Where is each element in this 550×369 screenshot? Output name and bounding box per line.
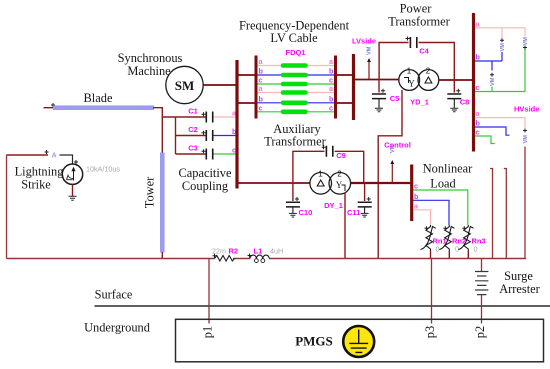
wire Rn2 bottom (448, 251, 450, 259)
capacitor C9 (326, 146, 332, 157)
ground below lightning source (69, 196, 77, 200)
svg-text:b: b (476, 119, 481, 128)
surge arrester stack (475, 272, 488, 295)
ground bus bottom (7, 258, 527, 260)
wire to C3 (176, 153, 206, 155)
load phase a wire (413, 210, 430, 225)
svg-text:b: b (476, 53, 481, 62)
wire stub bus to cable top (237, 74, 256, 76)
cable phase c1 (258, 83, 335, 85)
cable segment b2 (283, 101, 306, 106)
svg-text:10kA/10us: 10kA/10us (86, 165, 120, 174)
svg-text:Y: Y (408, 79, 415, 89)
cable left terminal bar (255, 56, 258, 119)
svg-text:LVside: LVside (352, 37, 376, 46)
ground below C5 (375, 108, 383, 112)
nonlinear resistor Rn1 (421, 225, 436, 251)
svg-text:SM: SM (175, 78, 195, 93)
wire p3 down (431, 259, 433, 324)
wire blade to tower elbow (153, 108, 162, 153)
svg-text:2: 2 (426, 67, 431, 76)
HVside phase c wire (475, 136, 495, 144)
svg-text:2: 2 (337, 170, 342, 179)
cable segment b1 (283, 73, 306, 78)
svg-text:A: A (52, 151, 57, 160)
HVside phase a wire (475, 117, 525, 119)
svg-text:Tower: Tower (143, 176, 157, 208)
wire C9 branch right riser (335, 151, 364, 183)
cable phase a2 (258, 92, 335, 94)
wire C2 to bus phase b (214, 135, 237, 137)
aux transformer DY_1 winding 1 (310, 173, 332, 195)
svg-text:b: b (414, 192, 419, 201)
svg-text:Nonlinear: Nonlinear (423, 162, 473, 176)
capacitor C4 (410, 37, 416, 48)
svg-text:C2: C2 (188, 125, 198, 134)
wire SM to machine bus (203, 84, 236, 86)
svg-text:0: 0 (474, 245, 478, 254)
LV bus (352, 54, 355, 120)
cable segment c1 (283, 82, 306, 87)
protective earth symbol (343, 326, 374, 357)
wire C1 to bus phase a (214, 116, 237, 118)
surface line (95, 305, 550, 307)
surge arrester stem bottom / wire p2 (481, 295, 483, 324)
blade left stub (44, 107, 54, 109)
svg-text:Load: Load (430, 177, 456, 191)
svg-text:c: c (476, 128, 480, 137)
svg-text:PMGS: PMGS (295, 334, 333, 349)
wire C4 branch right riser (419, 43, 455, 80)
svg-text:1: 1 (318, 170, 323, 179)
svg-text:Lightning: Lightning (15, 165, 64, 179)
surge arrester stem top (481, 259, 483, 272)
svg-text:VM: VM (523, 37, 529, 46)
inductor L1 4uH (248, 254, 252, 258)
ground below C11 (361, 213, 369, 217)
svg-text:Power: Power (400, 2, 433, 16)
cable phase b1 (258, 74, 335, 76)
load bus (410, 165, 413, 222)
svg-text:Surge: Surge (504, 269, 533, 283)
wire C3 to bus phase c (214, 153, 237, 155)
svg-text:DY_1: DY_1 (324, 201, 343, 210)
svg-text:p2: p2 (473, 326, 487, 338)
svg-text:C11: C11 (347, 208, 360, 217)
cable segment c2 (283, 110, 306, 115)
svg-text:VM: VM (390, 144, 396, 153)
svg-text:4uH: 4uH (270, 247, 283, 256)
voltmeter VM between a and b (501, 28, 503, 38)
capacitor C5 (378, 80, 380, 93)
svg-text:0: 0 (436, 245, 440, 254)
power transformer YD_1 winding 1 (399, 70, 420, 91)
aux transformer DY_1 winding 2 (329, 173, 351, 195)
svg-text:FDQ1: FDQ1 (285, 48, 305, 57)
svg-text:HVside: HVside (514, 105, 539, 114)
wire aux Y neutral down (344, 193, 346, 259)
cable segment a2 (283, 90, 306, 95)
HV phase a wire (475, 27, 525, 29)
wire stub cable to LV bus bottom (336, 102, 354, 104)
power transformer YD_1 winding 2 (418, 70, 439, 91)
svg-text:C1: C1 (188, 107, 198, 116)
svg-text:1: 1 (407, 67, 412, 76)
cable phase a1 (258, 65, 335, 67)
PMGS box (176, 319, 544, 362)
wire black elbow into source (60, 155, 73, 164)
svg-text:Surface: Surface (95, 288, 133, 302)
svg-text:p3: p3 (423, 326, 437, 338)
capacitor C2 (206, 130, 212, 141)
wire C9 branch left riser (293, 151, 325, 183)
svg-text:Control: Control (384, 141, 411, 150)
cable right terminal bar (334, 56, 337, 119)
svg-text:C9: C9 (336, 151, 346, 160)
svg-text:R2: R2 (229, 247, 239, 256)
synchronous machine SM (166, 66, 203, 103)
svg-text:C3: C3 (188, 144, 198, 153)
svg-text:p1: p1 (201, 326, 215, 338)
wire HVside a down to ground bus (524, 147, 526, 259)
svg-text:L1: L1 (254, 247, 263, 256)
wire p1 down (208, 259, 210, 324)
ground below C10 (289, 213, 297, 217)
svg-text:22m: 22m (212, 247, 226, 256)
svg-text:Transformer: Transformer (388, 15, 450, 29)
wire Rn3 bottom (467, 251, 469, 259)
svg-text:C10: C10 (299, 208, 313, 217)
svg-text:Arrester: Arrester (499, 282, 540, 296)
ground below C8 (450, 108, 458, 112)
cable segment a1 (283, 63, 306, 68)
voltmeter VM between a and c (524, 28, 526, 37)
lightning surge current source (62, 164, 82, 184)
svg-text:c: c (329, 103, 333, 112)
svg-text:VM: VM (500, 43, 506, 52)
wire left riser from lightning node down to ground bus (6, 155, 8, 259)
wire right riser 1 (490, 169, 493, 259)
wire Y neutral of power transformer (378, 90, 402, 259)
wire cap feed riser (175, 117, 177, 154)
tower bar (160, 153, 165, 253)
svg-text:Synchronous: Synchronous (118, 51, 183, 65)
wire aux primary (237, 182, 310, 184)
svg-text:c: c (414, 182, 418, 191)
wire aux secondary (351, 182, 411, 184)
capacitor C1 (206, 112, 212, 123)
svg-text:Capacitive: Capacitive (179, 166, 232, 180)
HV bus (472, 13, 475, 152)
blade bar (53, 105, 154, 110)
wire right riser 2 (504, 169, 507, 259)
wire lightning node horizontal (7, 154, 49, 156)
svg-text:Blade: Blade (84, 91, 113, 105)
svg-text:C8: C8 (460, 98, 470, 107)
svg-text:b: b (259, 94, 264, 103)
capacitor C8 (453, 80, 455, 93)
svg-text:b: b (329, 67, 334, 76)
svg-text:C5: C5 (390, 94, 400, 103)
nonlinear resistor Rn3 (458, 225, 473, 251)
svg-text:VM: VM (367, 46, 373, 55)
wire Rn1 bottom (430, 251, 432, 259)
svg-text:C4: C4 (419, 47, 429, 56)
svg-text:Strike: Strike (21, 178, 51, 192)
wire tower bottom to ground bus (161, 252, 163, 259)
svg-text:Underground: Underground (84, 321, 151, 335)
svg-text:LV Cable: LV Cable (270, 31, 318, 45)
svg-text:b: b (259, 67, 264, 76)
capacitor C3 (206, 149, 212, 160)
svg-text:Coupling: Coupling (182, 179, 228, 193)
capacitor C10 (292, 183, 294, 201)
load phase b wire (413, 200, 449, 225)
wire C4 branch left riser (379, 43, 408, 80)
svg-text:Transformer: Transformer (264, 135, 326, 149)
voltmeter VM on HVside a (524, 118, 526, 128)
wire below source (72, 184, 74, 196)
HV phase c wire (475, 91, 525, 93)
cable phase b2 (258, 102, 335, 104)
voltmeter VM between b and c (491, 61, 493, 71)
svg-text:c: c (259, 103, 263, 112)
cable phase c2 (258, 111, 335, 113)
nonlinear resistor Rn2 (439, 225, 454, 251)
HVside phase b wire (475, 127, 510, 135)
capacitor C11 (364, 183, 366, 201)
svg-text:Machine: Machine (127, 64, 171, 78)
wire to C2 (176, 135, 206, 137)
wire transformer to HV bus (439, 79, 472, 81)
svg-text:VM: VM (523, 135, 529, 144)
resistor R2 22m (213, 254, 217, 258)
wire LV bus to transformer (354, 79, 400, 81)
svg-text:YD_1: YD_1 (410, 98, 429, 107)
wire capacitive feed branch (162, 116, 205, 118)
svg-text:c: c (476, 83, 480, 92)
svg-text:b: b (329, 94, 334, 103)
wire stub cable to LV bus top (336, 74, 354, 76)
load phase c wire (413, 190, 468, 225)
wire stub bus to cable bottom (237, 102, 256, 104)
HV phase b wire (475, 60, 502, 62)
svg-text:VM: VM (490, 77, 496, 86)
junction tower top (160, 152, 164, 156)
machine bus (235, 60, 238, 189)
